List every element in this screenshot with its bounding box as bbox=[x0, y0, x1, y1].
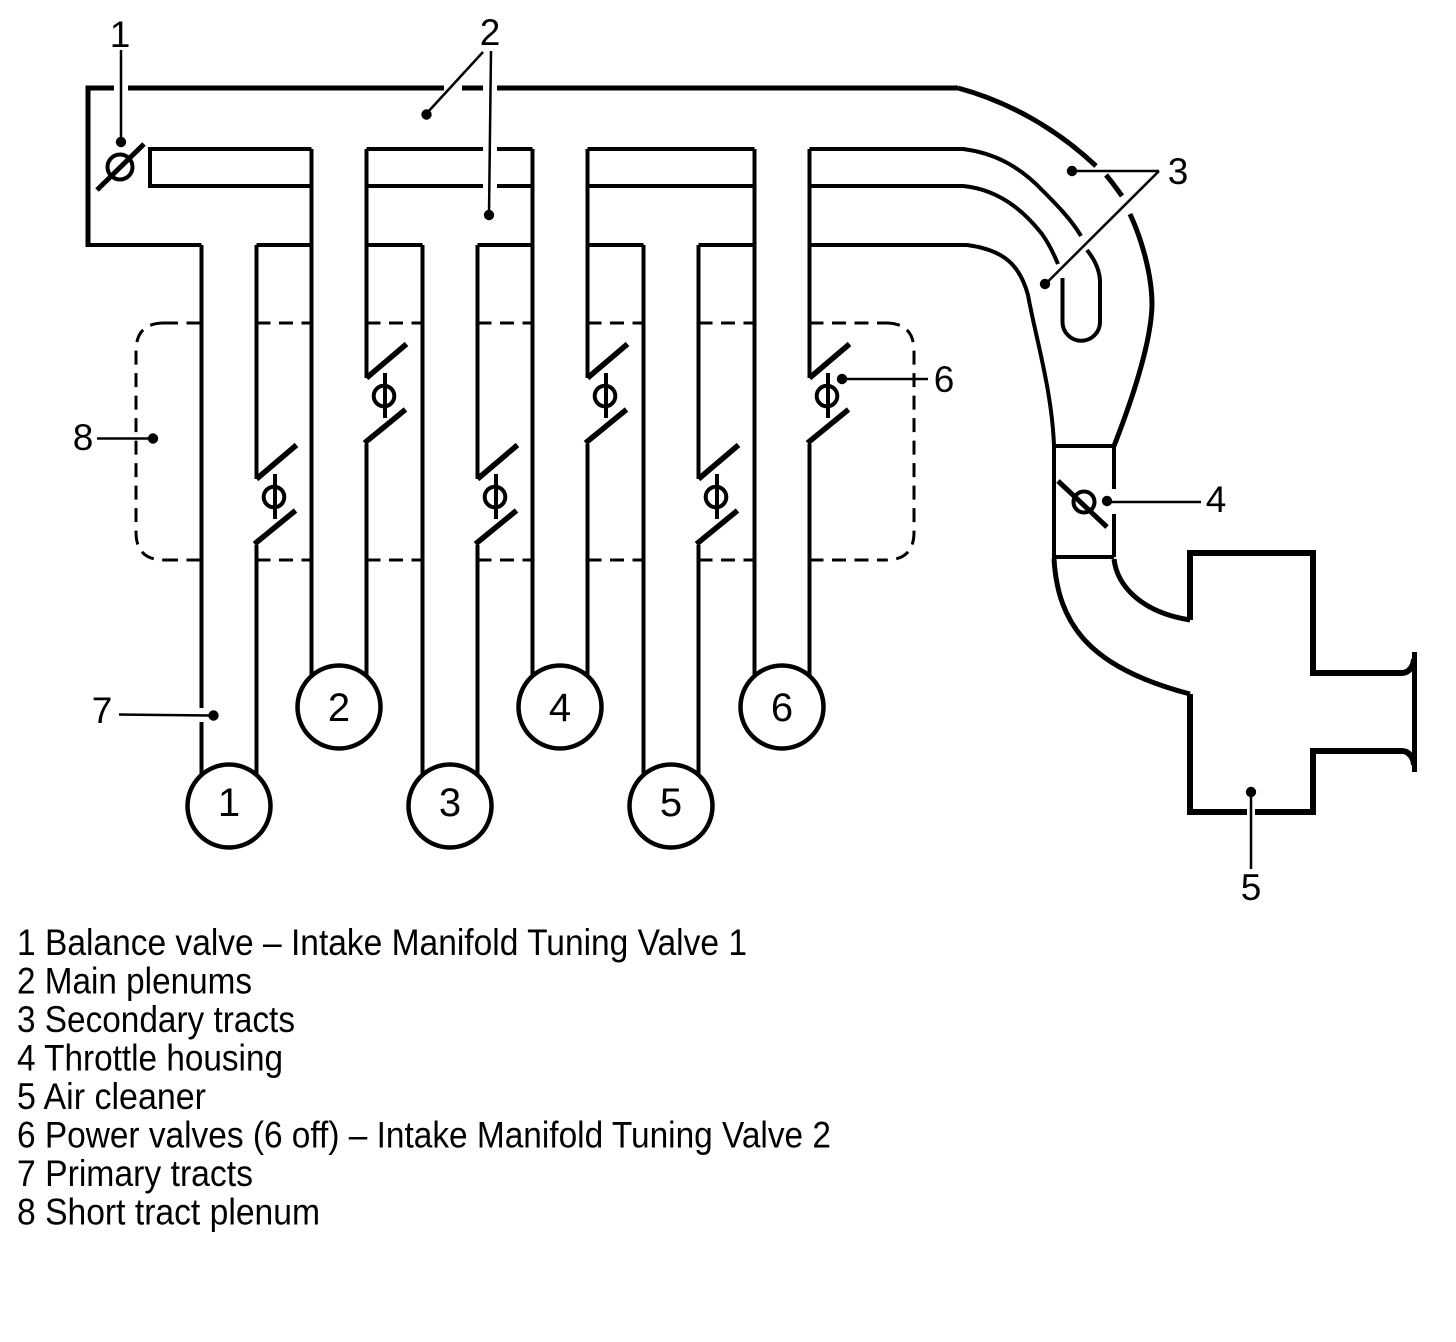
svg-text:8: 8 bbox=[73, 417, 94, 458]
svg-text:6: 6 bbox=[771, 686, 793, 730]
svg-text:7: 7 bbox=[92, 690, 113, 731]
svg-text:3 Secondary tracts: 3 Secondary tracts bbox=[17, 998, 295, 1040]
svg-text:1: 1 bbox=[110, 14, 131, 55]
svg-text:4: 4 bbox=[1206, 479, 1227, 520]
svg-text:5: 5 bbox=[660, 781, 682, 825]
svg-text:6 Power valves (6 off) – Intak: 6 Power valves (6 off) – Intake Manifold… bbox=[17, 1114, 831, 1156]
svg-text:5: 5 bbox=[1241, 867, 1262, 908]
svg-text:1 Balance valve – Intake Manif: 1 Balance valve – Intake Manifold Tuning… bbox=[17, 921, 747, 963]
svg-text:6: 6 bbox=[934, 359, 955, 400]
svg-text:5 Air cleaner: 5 Air cleaner bbox=[17, 1075, 206, 1117]
svg-text:2 Main plenums: 2 Main plenums bbox=[17, 960, 252, 1002]
svg-text:4: 4 bbox=[549, 686, 571, 730]
svg-text:3: 3 bbox=[439, 781, 461, 825]
svg-text:1: 1 bbox=[218, 781, 240, 825]
svg-text:3: 3 bbox=[1168, 151, 1189, 192]
svg-text:4 Throttle housing: 4 Throttle housing bbox=[17, 1037, 283, 1079]
svg-text:2: 2 bbox=[328, 686, 350, 730]
svg-text:2: 2 bbox=[480, 12, 501, 53]
svg-text:8 Short tract plenum: 8 Short tract plenum bbox=[17, 1191, 320, 1233]
svg-text:7 Primary tracts: 7 Primary tracts bbox=[17, 1152, 253, 1194]
